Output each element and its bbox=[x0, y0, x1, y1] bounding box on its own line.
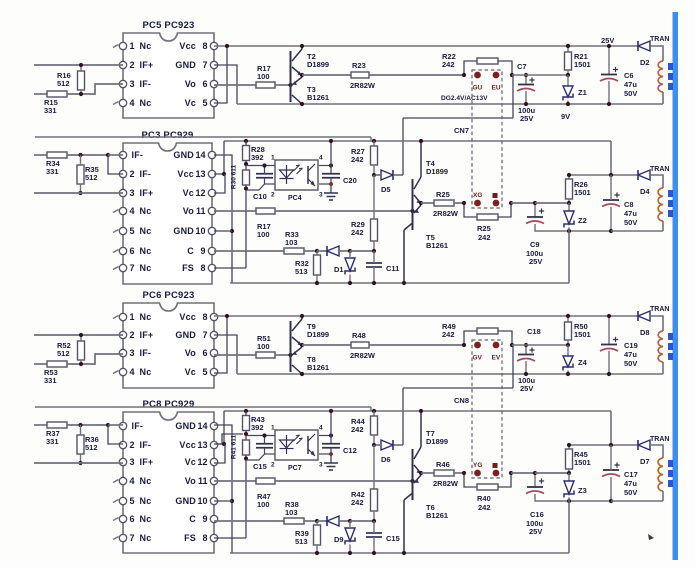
node R28 rail junction bbox=[244, 139, 248, 143]
resistor R45 1501 bbox=[566, 449, 591, 469]
node GND10 junction bbox=[230, 499, 234, 503]
svg-text:R25: R25 bbox=[436, 190, 450, 199]
wire R35 top stub bbox=[80, 425, 82, 435]
node junction right of connector bbox=[509, 201, 513, 205]
svg-text:Vcc: Vcc bbox=[179, 440, 196, 450]
svg-text:D5: D5 bbox=[381, 185, 391, 194]
node emitter output junction bbox=[300, 343, 304, 347]
svg-text:Vo: Vo bbox=[185, 476, 197, 486]
wire C10 top stub bbox=[264, 436, 266, 444]
wire pin1 line bbox=[246, 435, 276, 437]
node junction at R16 bottom bbox=[79, 362, 83, 366]
connector pin XG bbox=[474, 200, 481, 207]
svg-text:D1899: D1899 bbox=[426, 437, 448, 446]
svg-text:PC8 PC929: PC8 PC929 bbox=[143, 399, 195, 410]
wire pin1 link bbox=[108, 154, 123, 156]
connector pin N bbox=[493, 193, 498, 198]
svg-text:IF-: IF- bbox=[140, 79, 152, 89]
node R26 bottom junction bbox=[567, 201, 571, 205]
blue side bar bbox=[673, 12, 679, 560]
capacitor C19 47u bbox=[600, 337, 618, 351]
svg-text:6: 6 bbox=[202, 348, 207, 358]
wire C9 pin to R33 bbox=[214, 250, 284, 252]
wire Vc12 tie bbox=[214, 444, 225, 463]
connector CN7 dashed outline bbox=[472, 70, 502, 208]
transistor QT3 bbox=[292, 77, 329, 104]
wire node to zener bbox=[512, 344, 568, 346]
wire node to zener bbox=[512, 74, 568, 76]
resistor R48 series gate bbox=[351, 342, 369, 348]
wire R28 top stub bbox=[245, 141, 247, 146]
wire C7 bottom stub bbox=[525, 91, 527, 104]
wire zener top stub bbox=[567, 345, 569, 356]
wire C6 bottom stub bbox=[608, 81, 610, 104]
node R21 rail junction bbox=[566, 44, 570, 48]
zener Z2 bbox=[564, 211, 587, 228]
node R28-R30 junction bbox=[244, 162, 248, 166]
wire IF+ input bbox=[34, 192, 123, 194]
svg-text:XG: XG bbox=[473, 192, 482, 199]
zener Z3 bbox=[564, 481, 587, 498]
svg-text:Vcc: Vcc bbox=[179, 41, 196, 51]
svg-text:47u: 47u bbox=[624, 350, 637, 359]
wire emitter return horizontal bbox=[403, 387, 513, 389]
wire diode to zener junction bbox=[339, 250, 350, 252]
svg-text:CN7: CN7 bbox=[454, 126, 469, 135]
wire C10 bottom link bbox=[246, 448, 265, 460]
wire R26 top stub bbox=[568, 175, 570, 179]
svg-text:R48: R48 bbox=[352, 331, 366, 340]
connector pin YG bbox=[474, 470, 481, 477]
svg-text:14: 14 bbox=[197, 421, 207, 431]
svg-text:Nc: Nc bbox=[140, 98, 152, 108]
node R35 bottom junction bbox=[78, 461, 82, 465]
svg-text:Nc: Nc bbox=[140, 246, 152, 256]
svg-text:5: 5 bbox=[202, 367, 207, 377]
transistor QT8 bbox=[292, 347, 329, 374]
connector pin GV bbox=[474, 342, 481, 349]
node R35 top junction bbox=[78, 423, 82, 427]
wire D5 to emitter return bbox=[394, 174, 403, 176]
opto-isolator PC4 bbox=[271, 155, 323, 199]
wire GND14 down bbox=[214, 155, 232, 283]
wire C9 bottom corner bbox=[535, 494, 611, 501]
transistor QT7 bbox=[413, 429, 449, 500]
node base junction bbox=[288, 353, 292, 357]
wire R28 top stub bbox=[245, 411, 247, 416]
wire GND10 stub bbox=[214, 230, 232, 232]
wire C6 top stub bbox=[608, 316, 610, 344]
node collector junction bbox=[300, 44, 304, 48]
svg-text:GU: GU bbox=[473, 85, 483, 92]
wire D1 top stub bbox=[349, 251, 351, 258]
node C11 ground junction bbox=[372, 551, 376, 555]
wire rail to transformer corner bbox=[650, 46, 663, 61]
svg-text:50V: 50V bbox=[624, 89, 637, 98]
svg-text:6: 6 bbox=[130, 514, 135, 524]
svg-text:EU: EU bbox=[492, 85, 501, 92]
svg-text:10: 10 bbox=[197, 496, 207, 506]
wire opto pin3 link bbox=[319, 453, 331, 455]
wire FS8 stub bbox=[214, 537, 246, 539]
wire C6 top stub bbox=[608, 46, 610, 74]
svg-text:14: 14 bbox=[195, 150, 205, 160]
svg-text:100: 100 bbox=[257, 342, 270, 351]
svg-text:4: 4 bbox=[130, 206, 135, 216]
node T3 collector junction bbox=[300, 102, 304, 106]
node C20 rail junction bbox=[329, 139, 333, 143]
svg-text:IF+: IF+ bbox=[140, 457, 154, 467]
wire transformer bottom bbox=[662, 491, 664, 501]
svg-text:C17: C17 bbox=[624, 470, 638, 479]
wire GND10 stub bbox=[214, 500, 232, 502]
svg-text:242: 242 bbox=[351, 498, 364, 507]
wire GND7 down bbox=[214, 335, 237, 374]
wire floating ground rail bbox=[230, 552, 569, 554]
node R30 bottom junction bbox=[244, 456, 248, 460]
svg-text:7: 7 bbox=[202, 330, 207, 340]
capacitor C16 100u bbox=[526, 478, 544, 493]
svg-text:C9: C9 bbox=[530, 240, 540, 249]
wire node to R26 bbox=[535, 472, 569, 474]
svg-text:GND: GND bbox=[175, 421, 196, 431]
svg-text:512: 512 bbox=[85, 443, 98, 452]
node Vcc13 junction bbox=[222, 442, 226, 446]
wire transformer bottom corner bbox=[662, 362, 664, 374]
svg-text:9: 9 bbox=[200, 246, 205, 256]
node junction left of connector bbox=[462, 343, 466, 347]
transistor QT5 bbox=[404, 205, 448, 250]
wire winding return bbox=[611, 230, 663, 232]
wire R21 to node bbox=[567, 70, 569, 75]
node T5 collector junction bbox=[402, 551, 406, 555]
svg-text:13: 13 bbox=[197, 440, 207, 450]
capacitor C9 100u bbox=[526, 208, 544, 223]
svg-text:2: 2 bbox=[271, 192, 275, 199]
wire opto pin3 link bbox=[319, 183, 331, 185]
svg-text:Vo: Vo bbox=[183, 206, 195, 216]
wire floating ground rail bbox=[237, 373, 663, 375]
wire IF+ input bbox=[34, 334, 123, 336]
cursor speck bbox=[648, 534, 654, 540]
svg-text:Z3: Z3 bbox=[578, 486, 587, 495]
svg-text:242: 242 bbox=[478, 233, 491, 242]
svg-text:R30 611: R30 611 bbox=[231, 165, 238, 190]
svg-text:25V: 25V bbox=[520, 114, 533, 123]
node R26 bottom junction bbox=[567, 471, 571, 475]
node pin3 junction bbox=[329, 452, 333, 456]
wire R21 top stub bbox=[567, 316, 569, 322]
svg-text:25V: 25V bbox=[601, 36, 614, 45]
wire T5 collector down bbox=[403, 500, 405, 553]
resistor R30 bbox=[243, 170, 250, 185]
svg-text:8: 8 bbox=[200, 263, 205, 273]
resistor R51 bbox=[256, 334, 275, 358]
svg-text:6: 6 bbox=[202, 79, 207, 89]
wire R33 to junction bbox=[304, 520, 317, 522]
svg-text:9: 9 bbox=[202, 514, 207, 524]
svg-text:513: 513 bbox=[295, 537, 308, 546]
svg-text:8: 8 bbox=[202, 533, 207, 543]
svg-text:C7: C7 bbox=[517, 62, 527, 71]
node T5 collector junction bbox=[402, 281, 406, 285]
svg-text:R25: R25 bbox=[477, 224, 491, 233]
wire R32 top stub bbox=[316, 251, 318, 255]
diode D7 bbox=[638, 440, 650, 466]
wire junction down to pin2 bbox=[108, 425, 123, 444]
wire R30 bottom stub bbox=[245, 455, 247, 459]
svg-text:C8: C8 bbox=[624, 200, 634, 209]
svg-text:6: 6 bbox=[130, 246, 135, 256]
capacitor C15 bbox=[366, 533, 400, 543]
svg-text:R40: R40 bbox=[477, 494, 491, 503]
svg-text:R41 611: R41 611 bbox=[231, 435, 238, 460]
wire to transformer corner bbox=[650, 445, 663, 458]
wire R28-R30 link bbox=[245, 161, 247, 171]
wire C11 bottom stub bbox=[373, 267, 375, 283]
svg-text:IF+: IF+ bbox=[140, 330, 154, 340]
wire R26 top stub bbox=[568, 445, 570, 449]
wire node to R25 bbox=[421, 472, 434, 474]
resistor R34 bbox=[46, 152, 67, 176]
svg-text:512: 512 bbox=[85, 173, 98, 182]
svg-text:D6: D6 bbox=[381, 455, 391, 464]
wire R16 top stub bbox=[80, 65, 82, 71]
wire R27 top stub bbox=[373, 411, 375, 416]
opto-isolator PC7 bbox=[271, 425, 323, 469]
wire R35 top stub bbox=[80, 155, 82, 165]
node supply junction bbox=[609, 443, 613, 447]
wire C20 from rail bbox=[330, 141, 332, 174]
svg-text:7: 7 bbox=[202, 60, 207, 70]
transformer core marks bbox=[668, 63, 673, 90]
svg-text:IF-: IF- bbox=[140, 169, 152, 179]
svg-text:PC3 PC929: PC3 PC929 bbox=[142, 130, 194, 141]
wire T collector to rail bbox=[301, 316, 303, 319]
svg-text:100: 100 bbox=[257, 230, 270, 239]
svg-text:103: 103 bbox=[285, 238, 298, 247]
svg-text:1: 1 bbox=[271, 425, 275, 432]
svg-text:11: 11 bbox=[196, 206, 206, 216]
wire diode to zener junction bbox=[339, 520, 350, 522]
svg-text:Vc: Vc bbox=[183, 188, 194, 198]
wire C8 top stub bbox=[610, 175, 612, 200]
svg-text:Nc: Nc bbox=[140, 263, 152, 273]
svg-text:2: 2 bbox=[130, 60, 135, 70]
wire R17 to bases bbox=[275, 354, 291, 356]
svg-text:IF+: IF+ bbox=[140, 188, 154, 198]
wire pin1 line bbox=[246, 165, 276, 167]
svg-text:3: 3 bbox=[319, 192, 323, 199]
inductor transformer winding TR1-X bbox=[658, 188, 663, 221]
svg-text:3: 3 bbox=[130, 348, 135, 358]
svg-text:2R82W: 2R82W bbox=[350, 81, 376, 90]
node pin1-pin2 junction bbox=[106, 423, 110, 427]
wire R19 to bases bbox=[275, 210, 413, 212]
svg-text:TRAN: TRAN bbox=[650, 306, 669, 313]
svg-text:2: 2 bbox=[271, 462, 275, 469]
node C7 junction bbox=[524, 343, 528, 347]
wire R21 to node bbox=[567, 340, 569, 345]
svg-text:331: 331 bbox=[44, 376, 57, 385]
transistor QT9 bbox=[291, 319, 330, 372]
svg-text:Nc: Nc bbox=[140, 476, 152, 486]
svg-text:YG: YG bbox=[473, 462, 482, 469]
wire output node to R23 bbox=[302, 74, 351, 76]
wire R23 to connector bbox=[369, 344, 464, 346]
svg-text:PC5 PC923: PC5 PC923 bbox=[143, 20, 195, 31]
resistor R52 bbox=[57, 341, 85, 360]
wire C10 top stub bbox=[264, 166, 266, 174]
resistor R42 242 bbox=[351, 489, 378, 511]
wire zener to ground rail bbox=[568, 228, 570, 284]
resistor R49 gate-emitter loop bbox=[464, 331, 478, 345]
capacitor C17 47u bbox=[602, 462, 620, 476]
svg-text:D9: D9 bbox=[334, 535, 344, 544]
diode D2 bbox=[638, 41, 650, 67]
wire D1 bottom stub bbox=[349, 275, 351, 284]
svg-text:4: 4 bbox=[130, 98, 135, 108]
node R26 top junction bbox=[567, 173, 571, 177]
transistor QT4 bbox=[413, 159, 449, 230]
node C7 ground junction bbox=[524, 102, 528, 106]
wire C7 top stub bbox=[525, 75, 527, 84]
wire Vc12 tie bbox=[214, 174, 225, 193]
capacitor C8 47u bbox=[602, 192, 620, 206]
node C6 ground junction bbox=[607, 372, 611, 376]
node R27 rail junction bbox=[372, 409, 376, 413]
svg-text:Nc: Nc bbox=[140, 312, 152, 322]
node C20 rail junction bbox=[329, 409, 333, 413]
wire R27-R29 vertical bbox=[373, 445, 375, 489]
capacitor C18 100u bbox=[517, 347, 535, 361]
resistor R29 242 bbox=[351, 219, 378, 241]
node R32 junction bbox=[315, 249, 319, 253]
resistor R39 513 bbox=[295, 525, 321, 546]
wire R29 bottom bbox=[373, 511, 375, 519]
wire emitter return down bbox=[512, 75, 514, 118]
svg-text:50V: 50V bbox=[624, 359, 637, 368]
wire GND7 down bbox=[214, 65, 237, 104]
node emitter output junction bbox=[419, 471, 423, 475]
wire T5 collector down bbox=[403, 230, 405, 283]
svg-text:7: 7 bbox=[130, 533, 135, 543]
wire R25 to connector bbox=[454, 202, 464, 204]
wire IF- input lower bbox=[34, 93, 47, 95]
node junction at R16 top bbox=[79, 63, 83, 67]
node junction right of connector bbox=[510, 73, 514, 77]
svg-text:GND: GND bbox=[175, 330, 196, 340]
svg-text:EV: EV bbox=[492, 355, 501, 362]
svg-text:3: 3 bbox=[130, 79, 135, 89]
node R32 ground junction bbox=[315, 281, 319, 285]
svg-text:47u: 47u bbox=[624, 479, 637, 488]
svg-text:392: 392 bbox=[251, 423, 264, 432]
wire R26 bottom stub bbox=[568, 469, 570, 473]
svg-text:50V: 50V bbox=[624, 218, 637, 227]
resistor R47 bbox=[256, 478, 275, 509]
svg-text:PC4: PC4 bbox=[288, 195, 302, 202]
node C7 junction bbox=[524, 73, 528, 77]
svg-text:D1899: D1899 bbox=[307, 330, 329, 339]
wire R16 top stub bbox=[80, 335, 82, 341]
svg-text:7: 7 bbox=[130, 263, 135, 273]
svg-text:1: 1 bbox=[130, 41, 135, 51]
svg-text:C: C bbox=[189, 514, 196, 524]
svg-text:1501: 1501 bbox=[574, 60, 591, 69]
wire R27-R29 vertical bbox=[373, 175, 375, 219]
wire node to R26 bbox=[535, 202, 569, 204]
svg-text:25V: 25V bbox=[529, 527, 542, 536]
wire IF- input bbox=[34, 154, 47, 156]
svg-text:Vcc: Vcc bbox=[179, 312, 196, 322]
wire FS8 to R30 vertical bbox=[245, 459, 247, 539]
wire zener top stub bbox=[568, 473, 570, 481]
svg-text:IF-: IF- bbox=[132, 150, 144, 160]
wire rail corner down bbox=[610, 141, 612, 175]
node collector junction bbox=[300, 314, 304, 318]
svg-text:IF-: IF- bbox=[140, 348, 152, 358]
wire output node to R23 bbox=[302, 344, 351, 346]
wire D5 left stub bbox=[374, 174, 380, 176]
svg-text:242: 242 bbox=[351, 228, 364, 237]
wire Vo6 to R17 bbox=[214, 354, 256, 356]
node R26 top junction bbox=[567, 443, 571, 447]
svg-text:IF-: IF- bbox=[140, 440, 152, 450]
wire R16 bottom stub bbox=[80, 90, 82, 94]
svg-text:C16: C16 bbox=[530, 510, 544, 519]
wire supply wire y175 bbox=[569, 174, 637, 176]
resistor R32 513 bbox=[295, 255, 321, 276]
wire C11 top stub bbox=[373, 521, 375, 533]
svg-text:TRAN: TRAN bbox=[650, 166, 669, 173]
node base junction bbox=[410, 209, 414, 213]
svg-text:CN8: CN8 bbox=[454, 396, 469, 405]
svg-text:5: 5 bbox=[202, 98, 207, 108]
zener Z4 bbox=[563, 356, 588, 371]
IC U2 PC3 PC929 gate driver optocoupler bbox=[113, 130, 216, 284]
svg-text:D1899: D1899 bbox=[307, 60, 329, 69]
node R28-R30 junction bbox=[244, 432, 248, 436]
wire FS line corner bbox=[370, 407, 372, 411]
wire D1 top stub bbox=[349, 521, 351, 528]
svg-text:D1899: D1899 bbox=[426, 167, 448, 176]
zener D1 bbox=[345, 258, 355, 275]
node C11 junction bbox=[372, 519, 376, 523]
wire pin2 line bbox=[265, 183, 276, 185]
svg-text:1501: 1501 bbox=[574, 330, 591, 339]
svg-text:B1261: B1261 bbox=[307, 93, 329, 102]
svg-text:C15: C15 bbox=[386, 534, 400, 543]
node T4 collector junction bbox=[419, 139, 423, 143]
resistor R35 bbox=[77, 165, 99, 184]
connector pin GU bbox=[474, 72, 481, 79]
resistor R41 bbox=[243, 440, 250, 455]
svg-text:331: 331 bbox=[46, 437, 59, 446]
wire R17 to bases bbox=[275, 84, 291, 86]
svg-text:Vcc: Vcc bbox=[177, 169, 194, 179]
node zener ground junction bbox=[566, 372, 570, 376]
wire node to R25 bbox=[421, 202, 434, 204]
svg-text:Vc: Vc bbox=[185, 457, 196, 467]
svg-text:D8: D8 bbox=[640, 328, 650, 337]
wire rail corner down bbox=[610, 411, 612, 445]
IC U4 PC8 PC929 gate driver optocoupler bbox=[113, 399, 218, 553]
node junction Vcc-Vc bbox=[225, 314, 229, 318]
svg-text:TRAN: TRAN bbox=[650, 36, 669, 43]
IC U3 PC6 PC923 gate driver optocoupler bbox=[113, 290, 218, 388]
svg-text:25V: 25V bbox=[529, 257, 542, 266]
